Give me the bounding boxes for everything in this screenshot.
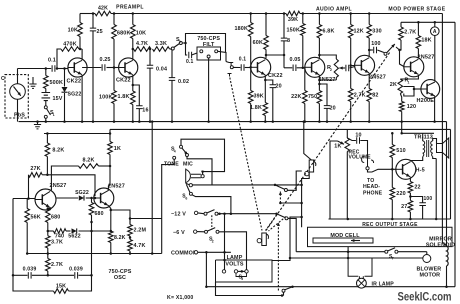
switch S3 [171, 47, 174, 50]
capacitor 20 emitter bypass [264, 79, 267, 82]
svg-text:1.8K: 1.8K [118, 94, 130, 100]
svg-text:2: 2 [330, 68, 332, 72]
wire Q2 emitter tee to 2.2M [110, 209, 113, 212]
node collector stage1 [79, 14, 81, 23]
wire meter to H200E [434, 36, 436, 82]
wire S7 to motor [398, 251, 427, 253]
transformer TR-113 secondary [431, 141, 433, 157]
wire ground return rail [19, 121, 447, 123]
resistor 3.3K [153, 47, 170, 52]
svg-text:6: 6 [185, 196, 187, 200]
svg-text:0.039: 0.039 [23, 267, 37, 273]
capacitor 0.039 left [13, 274, 28, 276]
svg-text:K= X1,000: K= X1,000 [167, 295, 193, 301]
svg-text:PbS: PbS [14, 113, 25, 119]
wire PbS top lead [17, 69, 19, 84]
wire collector to node [266, 54, 284, 56]
svg-text:CK22: CK22 [67, 78, 82, 84]
wire MIC contact drop [187, 157, 212, 185]
wire H200E emitter [434, 96, 436, 121]
resistor 1.8K emitter stage2 [132, 75, 134, 91]
svg-text:5: 5 [241, 277, 243, 281]
wire CK22-2 collector [132, 49, 134, 60]
svg-text:0.1: 0.1 [239, 57, 246, 63]
wire Q2 collector up [108, 166, 110, 191]
svg-text:1K: 1K [334, 144, 341, 150]
svg-text:22: 22 [414, 185, 420, 191]
svg-text:1K: 1K [114, 146, 121, 152]
resistor 2.7K mod [400, 22, 402, 27]
speaker [437, 144, 443, 153]
svg-text:680: 680 [95, 211, 104, 217]
transistor H-5 [396, 159, 416, 179]
svg-text:AUDIO AMPL: AUDIO AMPL [316, 7, 352, 13]
svg-text:MOTOR: MOTOR [420, 272, 441, 278]
resistor 470K feedback [57, 49, 61, 69]
wire 1K bottom node [109, 155, 111, 167]
svg-text:500K: 500K [50, 80, 64, 86]
resistor 740 [48, 230, 54, 232]
svg-text:10K: 10K [136, 31, 146, 37]
wire R1 wiper loop to H200E base [404, 87, 415, 97]
svg-text:56K: 56K [31, 215, 41, 221]
switch S2 [197, 231, 205, 233]
svg-text:8: 8 [287, 38, 290, 44]
potentiometer R2 [318, 79, 321, 82]
photocell PbS dashed case [5, 75, 28, 118]
wire switch to output base [396, 47, 404, 67]
svg-text:IR LAMP: IR LAMP [372, 282, 395, 288]
terminal MIC [186, 154, 189, 157]
svg-text:2N527: 2N527 [418, 55, 435, 61]
svg-text:150K: 150K [287, 28, 301, 34]
wire bus right drop [442, 14, 446, 247]
svg-text:42K: 42K [98, 6, 108, 12]
wire 56K to osc rail [26, 223, 28, 254]
svg-text:27K: 27K [30, 166, 40, 172]
transistor 2N527 first [305, 57, 325, 77]
wire lamp feed line [290, 257, 423, 259]
switch S6 [186, 184, 190, 192]
diode SG22 stage1 [64, 69, 66, 87]
svg-text:MOD POWER STAGE: MOD POWER STAGE [388, 7, 445, 13]
svg-text:2.7K: 2.7K [51, 262, 63, 268]
box IR lamp housing [348, 258, 372, 276]
svg-text:10: 10 [355, 133, 361, 139]
switch S4 [180, 145, 183, 148]
svg-text:COMMON: COMMON [171, 250, 197, 256]
svg-text:27: 27 [401, 204, 407, 210]
svg-text:100K: 100K [99, 95, 113, 101]
transistor CK22 second [119, 58, 138, 77]
svg-text:CK22: CK22 [268, 73, 283, 79]
transistor CK22 third [251, 57, 271, 77]
svg-text:SeekIC.com: SeekIC.com [398, 289, 452, 303]
svg-text:2: 2 [212, 239, 214, 243]
svg-text:C: C [1, 76, 5, 82]
IR lamp circle [357, 278, 367, 288]
svg-text:0.25: 0.25 [99, 57, 110, 63]
box REC OUTPUT STAGE [346, 129, 348, 138]
box mod cell tube [313, 238, 373, 243]
svg-text:510: 510 [396, 148, 405, 154]
capacitor 16 emitter bypass [132, 84, 135, 87]
wire Q2 emitter [108, 205, 110, 231]
wire box right jog [272, 217, 302, 261]
svg-text:100: 100 [424, 196, 433, 202]
wire jack sleeve down [302, 172, 310, 227]
svg-text:2.2M: 2.2M [134, 228, 147, 234]
blower motor [426, 252, 428, 255]
box LAMP VOLTS [216, 260, 273, 282]
resistor 510 [391, 132, 394, 135]
output jack plug upper [309, 160, 316, 172]
resistor 680 osc1 emitter [48, 207, 51, 208]
svg-text:8.2K: 8.2K [83, 158, 95, 164]
resistor 18K mod [417, 21, 420, 24]
capacitor 20 stage bypass [318, 83, 321, 86]
wire -12V to lamp meter [224, 214, 226, 270]
svg-text:2K: 2K [390, 82, 397, 88]
resistor 22 emitter [409, 177, 411, 181]
capacitor 10 [347, 138, 356, 141]
dashed linkage main diagonal [266, 52, 390, 231]
wire mod stage rail [401, 21, 455, 23]
capacitor 0.02 [171, 48, 174, 51]
record-play switch lower [275, 212, 278, 215]
capacitor 0.1 filter input [189, 52, 192, 58]
wire 2.2M top to right [130, 219, 162, 225]
wire Q1 base rail [13, 198, 35, 200]
wire -6V output [219, 232, 246, 270]
resistor 15K bottom loop [13, 275, 54, 291]
resistor 8.2K osc1 [46, 132, 49, 135]
svg-text:1.8K: 1.8K [250, 105, 262, 111]
dashed linkage to plug [266, 215, 277, 231]
wire output emitter to R1 [400, 75, 418, 79]
wire filter bypass over box [186, 34, 226, 53]
resistor 42K in bus [95, 11, 111, 16]
wire jack to rail [304, 122, 312, 160]
resistor 150K bias [302, 12, 305, 15]
transformer core [427, 140, 429, 157]
svg-text:39K: 39K [254, 94, 264, 100]
wire S3 to filter [182, 43, 187, 55]
phone plug lower [262, 233, 269, 246]
svg-text:16: 16 [142, 108, 148, 114]
svg-text:5622: 5622 [68, 234, 81, 240]
resistor 39K bias lower [250, 67, 252, 90]
svg-text:−12 V: −12 V [171, 212, 186, 218]
svg-text:60K: 60K [253, 40, 263, 46]
capacitor 0.05 coupling [284, 67, 292, 69]
resistor 100K bias [113, 68, 115, 91]
switch S1 [45, 101, 47, 106]
svg-text:180K: 180K [235, 26, 249, 32]
svg-text:2N527: 2N527 [369, 75, 386, 81]
transformer TR-113 primary [422, 133, 424, 141]
resistor 56K [26, 199, 28, 209]
diode 5622 [66, 230, 71, 232]
svg-text:HEAD-: HEAD- [363, 184, 380, 190]
svg-text:6.8K: 6.8K [323, 29, 335, 35]
svg-text:H200E: H200E [417, 98, 435, 104]
bottom switch [282, 289, 285, 292]
wire PbS bottom lead [17, 99, 19, 121]
svg-text:8.2K: 8.2K [114, 235, 126, 241]
wire mod cell to IR lamp [347, 247, 349, 258]
switch -12V [198, 212, 204, 215]
svg-text:2.7K: 2.7K [404, 30, 416, 36]
ground symbol photocell case [32, 77, 34, 84]
wire preamp input node [18, 68, 52, 70]
wire COMMON line [198, 251, 231, 253]
svg-text:82: 82 [372, 93, 378, 99]
wire TR-113 feed line [402, 132, 434, 134]
wire S6 output [192, 195, 231, 214]
resistor 4.7K osc [129, 236, 131, 240]
svg-text:0.05: 0.05 [289, 57, 300, 63]
svg-text:680K: 680K [117, 31, 131, 37]
switch record-play drive [384, 52, 387, 55]
resistor 27 [408, 201, 413, 213]
svg-text:2N527: 2N527 [50, 183, 67, 189]
transistor 2N527 output [404, 57, 424, 77]
resistor 12K bias [349, 12, 352, 15]
svg-text:PREAMPL: PREAMPL [116, 5, 144, 11]
svg-text:PHONE: PHONE [363, 190, 383, 196]
wire speaker return [435, 159, 437, 220]
capacitor 0.04 [149, 48, 152, 51]
svg-text:15K: 15K [56, 284, 66, 290]
resistor 10K stage2 [132, 12, 135, 15]
svg-text:15V: 15V [53, 96, 63, 102]
resistor 1K osc [109, 134, 111, 142]
wire 8.2K left to Q1 collector [51, 166, 78, 190]
resistor 680 osc2 [90, 197, 93, 200]
svg-text:4.7K: 4.7K [134, 243, 146, 249]
svg-text:330: 330 [372, 29, 381, 35]
wire mic line to jack [192, 184, 301, 186]
wire mic lower terminal [189, 184, 192, 187]
svg-text:0.039: 0.039 [69, 267, 83, 273]
svg-text:0.02: 0.02 [178, 79, 189, 85]
lamp meter terminals [222, 270, 225, 273]
wiper arrow rec volume [338, 141, 345, 144]
svg-text:SG22: SG22 [75, 190, 89, 196]
wire osc feedback line [47, 175, 95, 196]
resistor 330 collector [368, 12, 371, 15]
svg-text:A: A [433, 29, 437, 35]
svg-text:OSC: OSC [114, 275, 126, 281]
svg-text:FILT: FILT [203, 42, 215, 48]
switch S5 [238, 270, 242, 272]
capacitor 0.1 to audio amp [233, 66, 240, 68]
resistor 2.7K osc [47, 254, 49, 259]
wire filter ground leg [208, 58, 210, 122]
resistor 8.2K osc3 [109, 231, 114, 243]
svg-text:680: 680 [51, 215, 60, 221]
terminal TONE [173, 156, 176, 159]
wire CK22-1 emitter [81, 75, 83, 121]
svg-text:120: 120 [407, 104, 416, 110]
wire lower link line [279, 202, 282, 205]
wire base line stage1 [57, 68, 68, 70]
svg-text:0.1: 0.1 [48, 58, 56, 64]
resistor 180K bias upper [249, 12, 252, 15]
svg-text:H-5: H-5 [416, 167, 425, 173]
svg-text:3.7K: 3.7K [51, 240, 63, 246]
resistor 22K base return [304, 68, 306, 91]
svg-text:VOLTS: VOLTS [225, 262, 244, 268]
svg-text:LAMP: LAMP [227, 255, 243, 261]
wire COMMON drop to bottom rail [205, 252, 207, 286]
dashed linkage jack upper [230, 78, 262, 231]
capacitor 0.039 right [48, 274, 74, 276]
box mod cell outer [308, 227, 453, 246]
svg-text:−6 V: −6 V [173, 230, 185, 236]
wire S4 to mic upper [181, 139, 225, 171]
wire rail3 to rec box [110, 128, 451, 130]
resistor 82 emitter [368, 73, 370, 88]
750-CPS FILT box [197, 47, 221, 60]
wire CK22-1 collector [81, 49, 83, 60]
wire 27K left leg [28, 175, 30, 199]
svg-text:7: 7 [392, 257, 394, 261]
svg-text:3: 3 [179, 40, 181, 44]
svg-text:0.1: 0.1 [186, 59, 193, 65]
wire left loop vertical [12, 199, 14, 276]
mic jack lower contact [228, 74, 232, 77]
resistor 10K [78, 23, 83, 37]
dashed gang link S2 [211, 215, 213, 229]
resistor 1.8K emitter [264, 75, 266, 102]
switch S7 [296, 251, 385, 253]
resistor 39K in bus [286, 11, 300, 16]
potentiometer R1 2K [398, 79, 403, 94]
resistor 680K bias [113, 12, 116, 15]
diode SG22 osc [56, 197, 78, 199]
wiper arrow R2 [339, 67, 343, 69]
wire top supply bus [80, 13, 95, 15]
svg-text:4.7K: 4.7K [136, 41, 148, 47]
transistor H200E [421, 80, 440, 99]
svg-text:2N527: 2N527 [108, 184, 125, 190]
resistor 8.2K osc coupling [79, 164, 99, 169]
meter A [434, 21, 437, 24]
record-play switch upper [274, 184, 277, 187]
svg-text:20: 20 [276, 84, 282, 90]
ground symbol main [36, 120, 39, 123]
svg-text:470K: 470K [63, 42, 77, 48]
svg-text:750: 750 [308, 94, 317, 100]
wire diode node drop [91, 231, 93, 275]
svg-text:TR-113: TR-113 [414, 135, 433, 141]
resistor 6.8K collector load [318, 12, 321, 15]
svg-text:20: 20 [330, 106, 336, 112]
svg-text:25: 25 [97, 29, 103, 35]
resistor 2.2M [128, 225, 133, 237]
transistor CK22 first [68, 58, 87, 77]
svg-text:8.2K: 8.2K [52, 148, 64, 154]
headphone jack [362, 152, 374, 167]
svg-text:MIC: MIC [183, 162, 193, 168]
wire TONE to oscillator [162, 159, 175, 253]
mic jack tip contact [229, 63, 233, 66]
svg-text:39K: 39K [288, 17, 298, 23]
capacitor coupling to driver [344, 67, 346, 69]
svg-text:100: 100 [371, 41, 380, 47]
wire rail right drop to solenoid [446, 122, 448, 246]
resistor 220 [391, 169, 393, 187]
dashed vertical actuator [277, 223, 279, 291]
potentiometer REC VOLUME 1K [345, 138, 350, 152]
transistor 2N527 osc2 [94, 188, 114, 208]
capacitor 100 coupling [369, 49, 373, 51]
resistor 120 [400, 94, 401, 102]
mod cell arrow [351, 240, 360, 242]
svg-text:18K: 18K [421, 38, 431, 44]
svg-text:220: 220 [396, 191, 405, 197]
svg-text:SG22: SG22 [68, 92, 82, 98]
wire filter output [218, 51, 226, 61]
svg-text:10K: 10K [68, 28, 78, 34]
photocell PbS circle [10, 84, 26, 100]
svg-text:1: 1 [408, 80, 410, 84]
svg-text:12K: 12K [354, 29, 364, 35]
svg-text:1: 1 [53, 113, 55, 117]
capacitor 0.1 input [52, 65, 55, 72]
resistor 2.7K base return [350, 66, 352, 89]
resistor 3.7K [47, 231, 49, 236]
wire osc top line [44, 129, 110, 133]
microphone symbol [186, 169, 191, 184]
capacitor 8 decoupling [283, 12, 286, 15]
transistor 2N527 osc1 [35, 189, 56, 210]
svg-text:CK22: CK22 [116, 78, 131, 84]
wire lamp box to bottom switch [216, 282, 284, 296]
resistor 4.7K [132, 48, 135, 50]
wire osc emitter rail [27, 253, 162, 255]
svg-text:SOLENOID: SOLENOID [426, 242, 455, 248]
resistor 500K [45, 69, 47, 76]
wire common drop from main rail [151, 122, 153, 254]
wire 120 node to TR line [401, 122, 403, 134]
transistor 2N527 second [355, 55, 375, 75]
dashed actuator arrow [279, 192, 281, 204]
wire bottom rail [206, 286, 455, 288]
capacitor 25 bypass [92, 12, 95, 15]
svg-text:3.3K: 3.3K [155, 41, 167, 47]
svg-text:4: 4 [174, 149, 176, 153]
wire -12V output [218, 213, 277, 215]
battery 15V [45, 89, 47, 93]
svg-text:0.04: 0.04 [156, 67, 167, 73]
mirror solenoid coil [447, 246, 449, 266]
resistor 60K collector load [265, 12, 268, 15]
svg-text:22K: 22K [291, 94, 301, 100]
capacitor 0.25 coupling [82, 67, 101, 69]
svg-text:MOD CELL: MOD CELL [330, 233, 360, 239]
resistor 750 emitter [318, 75, 320, 90]
capacitor 100 bypass [410, 197, 422, 203]
